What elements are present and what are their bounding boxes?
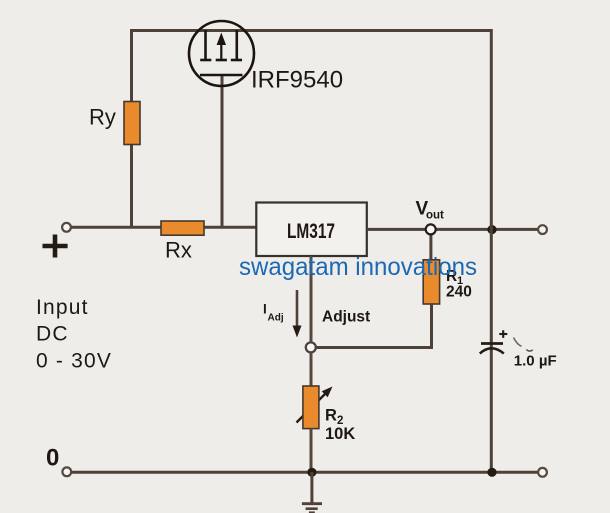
arrowhead of R2 arrow bbox=[322, 387, 333, 398]
resistor R1 bbox=[423, 260, 439, 304]
svg-text:R: R bbox=[325, 407, 337, 425]
resistor Rx bbox=[161, 221, 204, 235]
svg-text:Adjust: Adjust bbox=[322, 309, 370, 326]
svg-text:Ry: Ry bbox=[89, 105, 116, 130]
arrow across R2 (line under resistor) bbox=[297, 393, 327, 423]
transistor Q1 IRF9540 (P-MOSFET) bbox=[189, 21, 254, 86]
svg-text:Input: Input bbox=[36, 296, 89, 319]
terminal: bottom right bbox=[538, 468, 547, 477]
wire: left vertical branch through Ry bbox=[130, 29, 133, 227]
svg-text:Adj: Adj bbox=[268, 313, 284, 324]
wire: top rail from Ry branch to right rail bbox=[130, 29, 492, 32]
wire: R2 bottom to ground rail bbox=[310, 429, 313, 473]
wire: input line from + terminal to LM317 bbox=[71, 226, 257, 229]
+ symbol bbox=[43, 235, 68, 258]
junction bottom right bbox=[487, 468, 496, 477]
svg-text:out: out bbox=[426, 210, 444, 222]
resistor Ry bbox=[124, 102, 140, 145]
wire: MOSFET gate stem down to input node bbox=[221, 74, 224, 227]
svg-text:0: 0 bbox=[46, 445, 59, 472]
terminal: + input bbox=[62, 223, 71, 232]
stray arc mark bbox=[514, 338, 522, 347]
wire: LM317 adjust pin down bbox=[310, 256, 313, 343]
svg-text:IRF9540: IRF9540 bbox=[251, 67, 343, 94]
junction on output rail bbox=[487, 225, 496, 234]
wire: bottom rail bbox=[71, 471, 540, 474]
svg-text:1.0 µF: 1.0 µF bbox=[514, 353, 557, 370]
wire: node down to R2 bbox=[310, 353, 313, 388]
svg-text:I: I bbox=[263, 302, 267, 317]
wire: output line from LM317 to right terminal bbox=[367, 228, 540, 231]
stray breve mark over 1.0 bbox=[526, 350, 533, 352]
terminal: 0 input bbox=[62, 467, 71, 476]
svg-text:LM317: LM317 bbox=[287, 220, 335, 243]
junction bottom center bbox=[307, 468, 316, 477]
terminal: output right bbox=[538, 225, 547, 234]
svg-text:240: 240 bbox=[446, 284, 472, 301]
capacitor C1 (1.0uF, polarized) bbox=[480, 330, 508, 353]
svg-text:Rx: Rx bbox=[165, 238, 192, 263]
wire: right vertical rail bbox=[490, 29, 493, 472]
svg-text:DC: DC bbox=[36, 323, 69, 346]
arrow IAdj current bbox=[296, 290, 299, 327]
svg-text:0 - 30V: 0 - 30V bbox=[36, 350, 112, 373]
resistor R2 (variable) bbox=[303, 386, 319, 429]
node Vout (open circle) bbox=[426, 224, 436, 234]
svg-text:10K: 10K bbox=[325, 425, 355, 443]
ground bbox=[302, 472, 322, 513]
node adjust (open circle) bbox=[306, 342, 316, 352]
wire: R1 bottom to adjust node bbox=[316, 304, 432, 348]
svg-text:swagatam innovations: swagatam innovations bbox=[239, 253, 477, 281]
wire: Vout down to R1 bbox=[429, 229, 432, 261]
op-amp U1 LM317 regulator box bbox=[256, 203, 367, 257]
